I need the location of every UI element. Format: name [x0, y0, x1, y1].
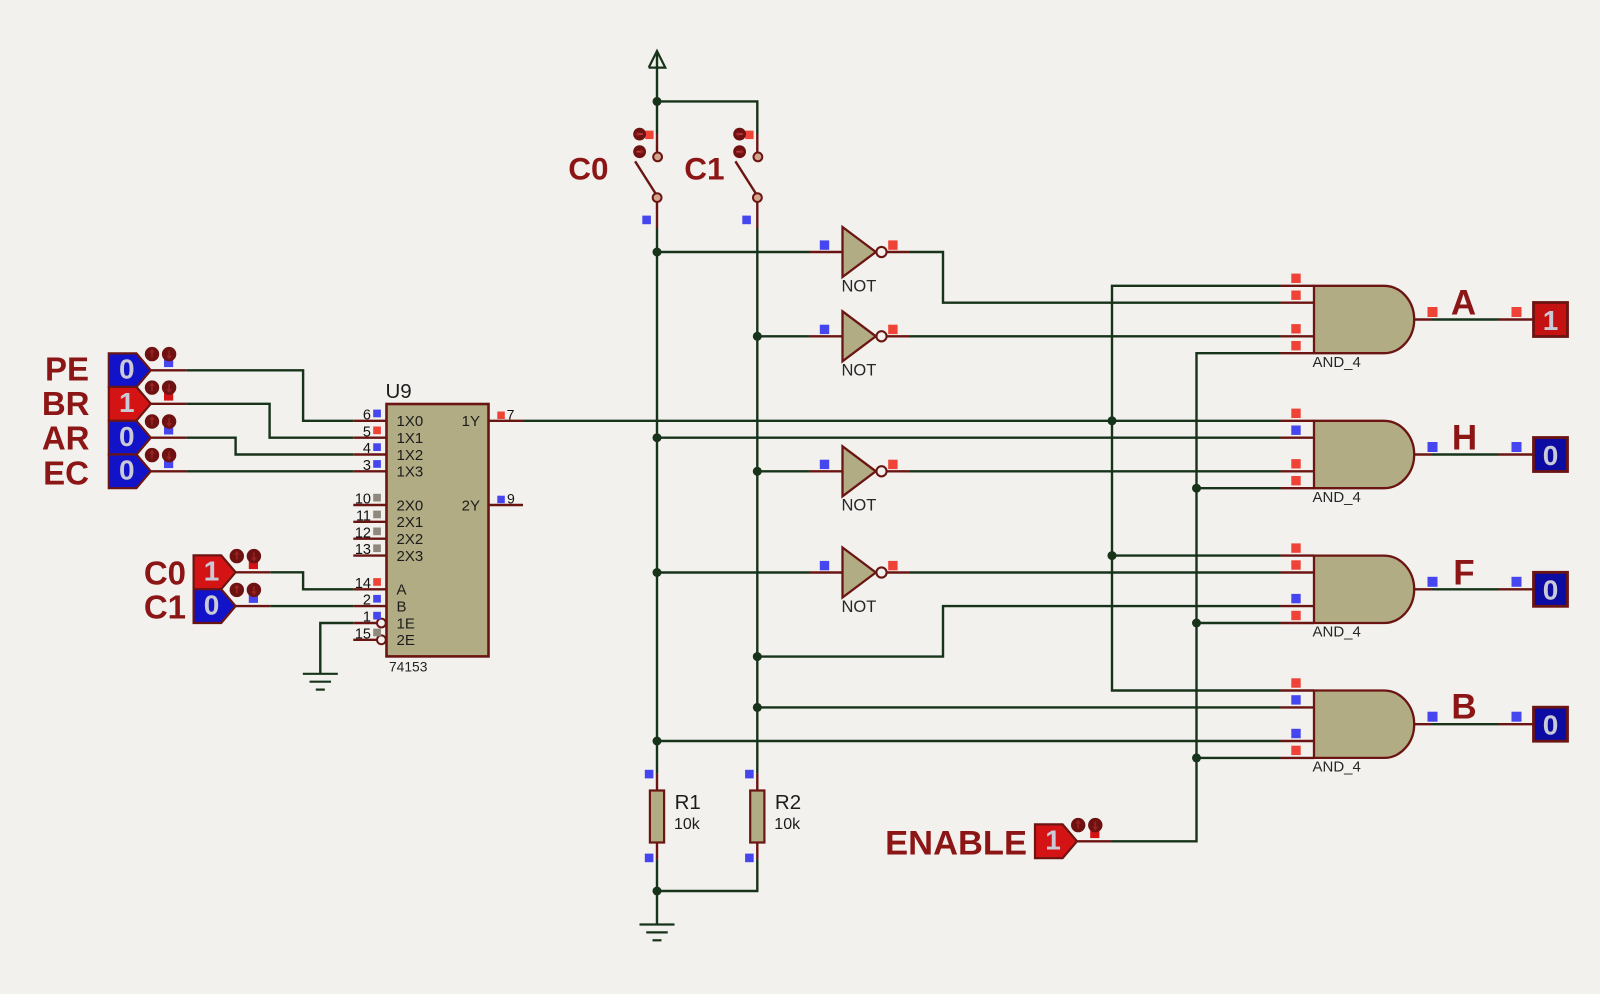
wire C1 state to pin B	[270, 605, 353, 607]
wire AND2 output to probe H	[1432, 453, 1499, 455]
svg-text:10: 10	[355, 492, 371, 508]
label BR	[42, 385, 90, 422]
label AR	[42, 420, 90, 457]
and-gate U4 AND_4	[1314, 691, 1414, 758]
label AND_4 #2	[1313, 489, 1361, 506]
pin stub 1X0	[353, 420, 386, 422]
svg-text:NOT: NOT	[842, 497, 877, 515]
pin stub AND3 output	[1414, 588, 1432, 590]
svg-text:B: B	[397, 598, 407, 615]
net square AND2 in2	[1291, 426, 1300, 435]
wire 1E to ground	[320, 623, 353, 674]
wire C1 to AND4 pin2	[757, 706, 1280, 708]
inverter NOT1	[843, 227, 887, 277]
actuator EC	[145, 448, 177, 468]
wire AR to 1X2	[186, 438, 353, 455]
logic state PE	[109, 353, 151, 387]
label switch C0	[568, 151, 608, 187]
pin stub probe A	[1499, 318, 1534, 320]
pin state square pin 11	[373, 511, 381, 519]
pin stub NOT2 output	[887, 335, 910, 337]
bubble pin 1E	[377, 619, 386, 628]
junction ENABLE/AND3 pin4	[1192, 619, 1201, 628]
pin stub AND3 input3	[1281, 605, 1315, 607]
svg-text:1: 1	[204, 556, 220, 587]
label output B	[1451, 688, 1476, 727]
svg-text:1X1: 1X1	[397, 430, 424, 447]
pin state square pin 12	[373, 528, 381, 536]
label C0 state	[144, 554, 186, 591]
pin number 3	[363, 458, 371, 474]
svg-text:12: 12	[355, 525, 371, 541]
svg-text:3: 3	[363, 458, 371, 474]
junction ground rail	[653, 887, 662, 896]
pin stub 1E	[353, 622, 377, 624]
pin state square pin 9	[497, 496, 505, 504]
inverter NOT4	[843, 548, 887, 598]
pin stub 2X3	[353, 554, 386, 556]
svg-text:1Y: 1Y	[462, 413, 480, 430]
bubble pin 2E	[377, 635, 386, 644]
pin stub NOT1 input	[809, 251, 843, 253]
logic probe B	[1534, 707, 1568, 741]
label NOT1	[842, 277, 877, 295]
svg-text:0: 0	[1543, 440, 1559, 471]
pin state square pin 7	[497, 412, 505, 420]
resistor R2	[750, 791, 764, 843]
svg-text:15: 15	[355, 626, 371, 642]
svg-text:PE: PE	[45, 351, 89, 388]
pin name 1X0	[397, 413, 424, 430]
pin name 1X3	[397, 464, 424, 481]
pin stub R1 top	[656, 774, 658, 791]
pin state square pin 3	[373, 460, 381, 468]
svg-text:5: 5	[363, 424, 371, 440]
pin state square pin 15	[373, 629, 381, 637]
pin stub switch C1 top	[756, 134, 758, 152]
net square AND4 in3	[1291, 729, 1300, 738]
pin stub logicstate AR	[151, 437, 187, 439]
net square AND2 in3	[1291, 459, 1300, 468]
wire C0 switch to net	[656, 228, 658, 252]
svg-text:2E: 2E	[397, 632, 415, 649]
wire C0 state to pin A	[270, 572, 353, 589]
svg-text:11: 11	[356, 508, 371, 524]
pin state square pin 4	[373, 443, 381, 451]
net square NOT3 input	[820, 460, 829, 469]
svg-text:1: 1	[1543, 305, 1559, 336]
net square probe F	[1512, 577, 1522, 587]
svg-text:AR: AR	[42, 420, 90, 457]
svg-text:10k: 10k	[674, 816, 701, 833]
pin stub switch C0 top	[656, 134, 658, 152]
svg-text:NOT: NOT	[842, 362, 877, 380]
pin stub 2X0	[353, 504, 386, 506]
ground symbol (R1 R2)	[640, 925, 675, 941]
net square AND4 in1	[1291, 678, 1300, 687]
net square AND1 in4	[1291, 341, 1300, 350]
logic probe F	[1534, 572, 1568, 606]
wire ENABLE to AND3 pin4	[1197, 622, 1281, 624]
svg-text:C0: C0	[568, 151, 608, 187]
pin stub AND3 input1	[1281, 554, 1315, 556]
svg-text:0: 0	[204, 589, 220, 620]
label NOT2	[842, 362, 877, 380]
junction bus/AND3 pin1	[1108, 551, 1117, 560]
pin number 15	[355, 626, 371, 642]
net square AND1 output	[1428, 307, 1438, 317]
pin stub 1X2	[353, 453, 386, 455]
wire R1 bottom to ground	[656, 859, 658, 891]
pin name 1X1	[397, 430, 424, 447]
net square probe B	[1512, 712, 1522, 722]
pin stub AND1 output	[1414, 318, 1432, 320]
junction ENABLE/AND2 pin4	[1192, 484, 1201, 493]
label AND_4 #4	[1313, 759, 1361, 776]
pin stub AND4 input3	[1281, 740, 1315, 742]
label AND_4 #1	[1313, 354, 1361, 371]
svg-text:9: 9	[507, 491, 515, 507]
label ENABLE	[885, 824, 1027, 862]
pin stub AND1 input3	[1281, 335, 1315, 337]
net square NOT2 output	[888, 325, 897, 334]
logic probe A	[1534, 303, 1568, 337]
pin stub AND1 input4	[1281, 352, 1315, 354]
svg-text:1E: 1E	[397, 615, 415, 632]
pin stub probe F	[1499, 588, 1534, 590]
label output A	[1451, 283, 1476, 322]
pin stub AND2 input1	[1281, 420, 1315, 422]
pin stub NOT4 input	[809, 571, 843, 573]
net square AND3 in2	[1291, 560, 1300, 569]
pin stub A	[353, 588, 386, 590]
net square NOT2 input	[820, 325, 829, 334]
pin number 4	[363, 441, 371, 457]
pin state square pin 10	[373, 494, 381, 502]
pin name 1Y	[462, 413, 480, 430]
wire NOT2 output to AND1 pin3	[910, 335, 1281, 337]
junction C1/NOT2	[753, 332, 762, 341]
and-gate U1 AND_4	[1314, 286, 1414, 353]
svg-text:H: H	[1452, 418, 1477, 457]
svg-text:2: 2	[363, 593, 371, 609]
pin stub AND4 input4	[1281, 757, 1315, 759]
net square AND4 in2	[1291, 695, 1300, 704]
actuator C0 state	[230, 549, 262, 569]
value R2 10k	[774, 816, 801, 833]
svg-text:NOT: NOT	[842, 277, 877, 295]
pin name 2X0	[397, 497, 424, 514]
svg-text:0: 0	[1543, 710, 1559, 741]
pin name 1X2	[397, 447, 424, 464]
pin stub R2 bottom	[756, 843, 758, 860]
pin name 2Y	[462, 497, 480, 514]
wire AND1 output to probe A	[1432, 318, 1499, 320]
svg-text:2Y: 2Y	[462, 497, 480, 514]
actuator C1 state	[230, 583, 262, 603]
svg-text:C1: C1	[144, 589, 186, 626]
pin number 11	[356, 508, 371, 524]
wire NOT3 input	[757, 470, 809, 472]
logic probe H	[1534, 438, 1568, 472]
net square AND4 output	[1428, 712, 1438, 722]
pin stub logicstate EC	[151, 470, 187, 472]
net square AND3 in1	[1291, 543, 1300, 552]
wire AND4 output to probe B	[1432, 723, 1499, 725]
ground symbol (1E)	[303, 674, 338, 690]
refdes U9	[386, 380, 412, 403]
net square AND1 in1	[1291, 274, 1300, 283]
wire NOT4 input	[657, 571, 809, 573]
wire EC to 1X3	[186, 470, 353, 472]
logic state BR	[109, 387, 151, 421]
wire NOT3 output to AND2 pin3	[910, 470, 1281, 472]
svg-text:6: 6	[363, 407, 371, 423]
svg-text:10k: 10k	[774, 816, 801, 833]
net square R1 bottom	[645, 854, 654, 863]
pin name 1E	[397, 615, 415, 632]
pin stub AND1 input2	[1281, 302, 1315, 304]
wire PE to 1X0	[186, 370, 353, 421]
pin stub AND3 input2	[1281, 571, 1315, 573]
svg-text:7: 7	[507, 406, 515, 422]
pin number 7	[507, 406, 515, 422]
label output F	[1453, 553, 1474, 592]
wire C0 vertical bus	[656, 252, 658, 774]
pin number 12	[355, 525, 371, 541]
svg-text:A: A	[397, 582, 407, 599]
wire NOT2 input	[757, 335, 809, 337]
net square probe H	[1512, 442, 1522, 452]
pin stub 1X3	[353, 470, 386, 472]
svg-text:0: 0	[119, 455, 135, 486]
svg-text:AND_4: AND_4	[1313, 489, 1361, 506]
pin stub ENABLE	[1077, 840, 1112, 842]
pin stub NOT4 output	[887, 571, 910, 573]
pin number 2	[363, 593, 371, 609]
wire R2 bottom to ground rail	[657, 859, 757, 891]
wire ENABLE vertical bus	[1112, 353, 1281, 841]
logic state ENABLE	[1035, 824, 1077, 858]
svg-text:13: 13	[355, 542, 371, 558]
svg-text:1: 1	[1045, 825, 1061, 856]
pin state square pin 2	[373, 595, 381, 603]
svg-text:2X1: 2X1	[397, 514, 424, 531]
wire C0 to AND4 pin3	[657, 740, 1281, 742]
net square probe A	[1512, 307, 1522, 317]
svg-text:NOT: NOT	[842, 598, 877, 616]
and-gate U2 AND_4	[1314, 421, 1414, 488]
junction C0/NOT4	[653, 568, 662, 577]
pin stub AND4 output	[1414, 723, 1432, 725]
pin stub 2E	[353, 639, 377, 641]
pin stub AND3 input4	[1281, 622, 1315, 624]
net square R2 bottom	[745, 854, 754, 863]
pin number 5	[363, 424, 371, 440]
pin stub 2Y	[489, 504, 524, 506]
junction C1/AND3 pin3	[753, 652, 762, 661]
svg-text:AND_4: AND_4	[1313, 354, 1361, 371]
junction ENABLE/AND4 pin4	[1192, 753, 1201, 762]
pin stub B	[353, 605, 386, 607]
label EC	[43, 454, 89, 491]
logic state C0	[194, 555, 236, 589]
actuator BR	[145, 380, 177, 400]
svg-text:EC: EC	[43, 454, 89, 491]
label output H	[1452, 418, 1477, 457]
svg-text:F: F	[1453, 553, 1474, 592]
pin stub 2X1	[353, 521, 386, 523]
wire C0 to AND2 pin2	[657, 437, 1281, 439]
value 74153	[389, 660, 428, 675]
label NOT4	[842, 598, 877, 616]
svg-text:2X0: 2X0	[397, 497, 424, 514]
label AND_4 #3	[1313, 624, 1361, 641]
pin state square pin 5	[373, 427, 381, 435]
net square AND2 in1	[1291, 409, 1300, 418]
pin stub logicstate PE	[151, 369, 187, 371]
svg-text:AND_4: AND_4	[1313, 624, 1361, 641]
svg-text:BR: BR	[42, 385, 90, 422]
switch C1	[735, 153, 762, 203]
wire bus to AND3 pin1	[1112, 554, 1281, 556]
svg-text:C0: C0	[144, 554, 186, 591]
svg-text:4: 4	[363, 441, 371, 457]
pin state square pin 14	[373, 578, 381, 586]
wire ENABLE to AND4 pin4	[1197, 757, 1281, 759]
pin name 2X2	[397, 531, 424, 548]
inverter NOT3	[843, 446, 887, 496]
net square AND1 in2	[1291, 291, 1300, 300]
pin stub logicstate BR	[151, 403, 187, 405]
label NOT3	[842, 497, 877, 515]
junction at VCC rail	[653, 97, 662, 106]
net square NOT4 input	[820, 561, 829, 570]
pin number 6	[363, 407, 371, 423]
pin stub switch C0 bottom	[656, 202, 658, 228]
power symbol VCC	[649, 51, 666, 68]
pin state square pin 1	[373, 612, 381, 620]
pin stub R2 top	[756, 774, 758, 791]
net square AND4 in4	[1291, 746, 1300, 755]
wire NOT1 input	[657, 251, 809, 253]
wire VCC rail to C1 switch	[657, 101, 757, 134]
and-gate U3 AND_4	[1314, 556, 1414, 623]
net square NOT1 output	[888, 240, 897, 249]
pin stub AND4 input1	[1281, 689, 1315, 691]
wire NOT1 output to AND1 pin2	[910, 252, 1281, 303]
actuator switch C0	[633, 128, 653, 158]
wire BR to 1X1	[186, 404, 353, 438]
pin stub NOT1 output	[887, 251, 910, 253]
wire C1 switch to net	[756, 228, 758, 252]
svg-text:R2: R2	[775, 791, 801, 814]
pin name 2X3	[397, 548, 424, 565]
pin number 10	[355, 492, 371, 508]
junction 1Y/bus	[1108, 416, 1117, 425]
wire ENABLE to AND2 pin4	[1197, 487, 1281, 489]
net square NOT1 input	[820, 240, 829, 249]
actuator switch C1	[733, 128, 753, 158]
svg-text:C1: C1	[684, 151, 724, 187]
svg-text:1: 1	[119, 387, 135, 418]
pin stub logicstate C1	[236, 605, 271, 607]
junction C1/NOT3	[753, 467, 762, 476]
wire C1 vertical bus	[756, 252, 758, 774]
svg-text:R1: R1	[675, 791, 701, 814]
pin stub probe H	[1499, 453, 1534, 455]
pin state square pin 6	[373, 410, 381, 418]
svg-text:U9: U9	[386, 380, 412, 403]
net square switch C1	[742, 216, 751, 225]
pin name A	[397, 582, 407, 599]
net square AND3 in3	[1291, 594, 1300, 603]
wire NOT4 output to AND3 pin2	[910, 571, 1281, 573]
svg-text:B: B	[1451, 688, 1476, 727]
net square AND1 in3	[1291, 324, 1300, 333]
net square R2 top	[745, 770, 754, 779]
pin stub AND2 input3	[1281, 470, 1315, 472]
actuator PE	[145, 347, 177, 367]
svg-text:14: 14	[355, 576, 371, 592]
pin name 2X1	[397, 514, 424, 531]
svg-text:1X2: 1X2	[397, 447, 424, 464]
pin stub AND4 input2	[1281, 706, 1315, 708]
actuator ENABLE	[1071, 818, 1103, 838]
pin number 14	[355, 576, 371, 592]
pin stub R1 bottom	[656, 843, 658, 860]
IC U9 74153 body	[387, 404, 489, 656]
pin number 13	[355, 542, 371, 558]
wire bus vertical AND1-AND4 pin1	[1112, 286, 1281, 691]
junction C0/AND2 pin2	[653, 433, 662, 442]
pin stub AND2 output	[1414, 453, 1432, 455]
svg-text:ENABLE: ENABLE	[885, 824, 1027, 862]
power rail wire	[656, 52, 658, 101]
svg-text:1X0: 1X0	[397, 413, 424, 430]
label switch C1	[684, 151, 724, 187]
pin number 1	[363, 610, 371, 626]
logic state EC	[109, 454, 151, 488]
inverter NOT2	[843, 311, 887, 361]
pin stub probe B	[1499, 723, 1534, 725]
net square R1 top	[645, 770, 654, 779]
net square NOT3 output	[888, 460, 897, 469]
pin stub NOT3 input	[809, 470, 843, 472]
pin stub 1X1	[353, 437, 386, 439]
wire ground stem	[656, 891, 658, 925]
pin stub switch C1 bottom	[756, 202, 758, 228]
pin stub AND2 input4	[1281, 487, 1315, 489]
pin name B	[397, 598, 407, 615]
svg-text:0: 0	[119, 354, 135, 385]
svg-text:2X2: 2X2	[397, 531, 424, 548]
svg-text:AND_4: AND_4	[1313, 759, 1361, 776]
label PE	[45, 351, 89, 388]
label R2	[775, 791, 801, 814]
svg-text:1: 1	[363, 610, 371, 626]
net square AND2 in4	[1291, 476, 1300, 485]
pin stub NOT3 output	[887, 470, 910, 472]
value R1 10k	[674, 816, 701, 833]
wire VCC rail to C0 switch	[656, 101, 658, 134]
net square switch C0	[642, 216, 651, 225]
pin stub logicstate C0	[236, 571, 271, 573]
junction C0/AND4 pin3	[653, 737, 662, 746]
svg-text:0: 0	[1543, 575, 1559, 606]
pin stub 1Y	[489, 420, 524, 422]
svg-text:1X3: 1X3	[397, 464, 424, 481]
